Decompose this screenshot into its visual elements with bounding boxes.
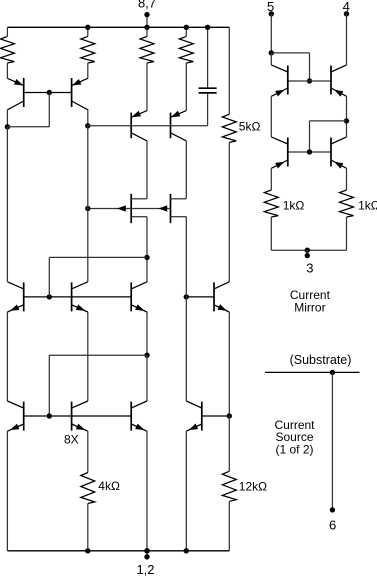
svg-text:12kΩ: 12kΩ: [239, 479, 267, 493]
svg-text:8X: 8X: [64, 433, 79, 447]
svg-text:(1 of 2): (1 of 2): [275, 442, 313, 456]
svg-text:6: 6: [329, 517, 336, 532]
svg-text:4kΩ: 4kΩ: [98, 479, 120, 493]
svg-text:1kΩ: 1kΩ: [358, 199, 377, 213]
svg-text:8,7: 8,7: [138, 0, 156, 10]
svg-text:(Substrate): (Substrate): [290, 353, 352, 367]
svg-text:1,2: 1,2: [136, 562, 154, 577]
svg-text:3: 3: [306, 261, 313, 276]
svg-text:1kΩ: 1kΩ: [283, 199, 305, 213]
svg-text:5kΩ: 5kΩ: [239, 120, 261, 134]
svg-text:Mirror: Mirror: [294, 300, 325, 314]
